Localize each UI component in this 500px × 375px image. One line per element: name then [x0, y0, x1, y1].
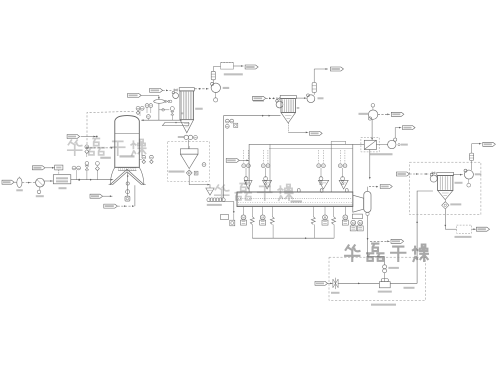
flag: air out D	[391, 112, 404, 116]
dashed box: pneumatic conveying	[329, 257, 426, 306]
air duct bar	[162, 122, 188, 126]
bed spring Z4	[332, 207, 336, 239]
wire: branch to flag (dash-dot)	[370, 240, 390, 242]
dashed box: cyclone unit	[168, 141, 210, 181]
wire: hood to HX	[331, 141, 364, 144]
bed motor M3	[322, 207, 328, 226]
wire: HX to fan E	[376, 144, 387, 146]
flag: vent 排空 B	[330, 67, 343, 71]
cyclone separator 旋风除尘器	[169, 140, 206, 173]
inline filter F1	[16, 177, 23, 192]
wire: skirt drain down	[134, 185, 136, 206]
plate heat exchanger 板式换热器	[364, 140, 392, 155]
bed inlet valve assembly 3	[317, 150, 329, 189]
wire: filter to pump (dash-dot)	[22, 182, 35, 184]
wire: pump to tank	[44, 180, 53, 182]
control valve on branch	[170, 107, 174, 121]
bed spring Z3	[311, 207, 315, 239]
flag: dust out 排粉	[310, 131, 323, 135]
flag: steam 蒸汽 C	[396, 172, 428, 176]
wire: valve C down	[444, 209, 456, 229]
wire: atomizer feed (dash-dot)	[86, 147, 113, 159]
instruments on tower dome	[136, 104, 153, 116]
wire: valve to venturi	[384, 273, 386, 282]
flag: conveying branch	[391, 239, 404, 243]
air distributor band	[118, 168, 136, 171]
dashed box: final drying unit	[410, 162, 481, 214]
bed left inlet box	[221, 214, 235, 226]
blower B-C 风机	[464, 169, 481, 187]
silencer A	[211, 67, 220, 84]
bed inlet valve assembly 2	[261, 150, 271, 189]
discharge valve C 卸料阀	[442, 200, 462, 209]
flag: vent 排空 A	[245, 65, 258, 69]
watermark 3 (华磊干燥, right-lower)	[344, 244, 429, 262]
butterfly valve	[331, 278, 340, 294]
spray dryer tower body	[115, 116, 140, 168]
bed spring Z2	[270, 207, 274, 239]
wire: valve box to tank (dashed)	[58, 170, 60, 175]
collection hopper	[206, 188, 214, 195]
wire: cyclone discharge to hopper	[189, 176, 210, 188]
bed spring Z1	[250, 207, 254, 239]
tower cone bottom (pagoda)	[109, 167, 146, 184]
watermark 2 (华磊干燥, center)	[214, 183, 294, 201]
flag: conveying air inlet	[315, 281, 333, 285]
silencer C	[470, 143, 482, 170]
blower B-A 风机	[211, 82, 230, 102]
watermark 1 (华磊干燥, left-center)	[67, 138, 147, 156]
flag: to next stage	[380, 185, 392, 189]
bag filter A 布袋除尘器	[179, 88, 203, 133]
fan F-B1	[276, 98, 283, 108]
bed right gearbox	[350, 214, 363, 231]
discharge valve under cyclone	[186, 170, 198, 176]
pump P1	[36, 178, 45, 197]
bed motor M2	[260, 207, 266, 226]
tower discharge stack	[125, 173, 130, 202]
wire: to product flag	[472, 228, 476, 230]
hot-air distributor dish	[154, 100, 172, 104]
flag: product 成品	[476, 227, 489, 231]
flag: bed air inlet	[226, 158, 249, 162]
wire: fan D to flag (dash-dot)	[378, 113, 390, 115]
wire: main feed line	[71, 179, 113, 181]
feed tank T1 山楂提取液	[53, 175, 71, 190]
bed inlet valve assembly 4	[338, 150, 348, 189]
wire: conveying line	[338, 283, 379, 285]
wire: filter B dust out	[288, 123, 308, 133]
fan F-A1	[172, 91, 178, 98]
valve at filter A inlet	[174, 89, 177, 91]
valve V2 with bubble	[95, 162, 99, 180]
wire: filter A outlet to blower A	[194, 88, 208, 90]
flag: reflux 回流	[67, 135, 97, 139]
wire: conveying line 2	[390, 283, 417, 288]
bed inlet valve assembly 1	[242, 150, 252, 189]
muffler box (dashed)	[221, 63, 243, 76]
wire: fan D down to HX	[371, 119, 373, 140]
wire: HX bottom outlet	[369, 150, 371, 180]
silencer B	[312, 68, 328, 95]
flag: vent E 排空	[403, 126, 416, 130]
flag: drain 排渣液	[104, 204, 135, 208]
bed motor M1	[241, 207, 247, 226]
flag: tap water 自来水	[32, 166, 54, 170]
dashed box: plate HX	[361, 138, 379, 152]
valve box F	[55, 165, 63, 170]
fan F-C1	[430, 172, 437, 182]
valve V1 (vertical)	[85, 162, 89, 180]
bed motor M4	[342, 207, 348, 226]
wire: conveyor to bed inlet	[223, 202, 234, 214]
wire: capsule top vent	[368, 186, 379, 192]
bag filter C	[437, 173, 463, 200]
wire: muffler to vent	[233, 65, 243, 67]
instrument bubbles PI/TI	[72, 166, 80, 180]
rotary feeder valve	[383, 265, 399, 273]
drain manifold under bed	[252, 237, 334, 239]
discharge riser capsule	[364, 191, 371, 215]
dashed box: product packing 成品包装	[455, 225, 472, 238]
flag: steam to heater 蒸汽	[128, 93, 160, 99]
blower B-B 风机	[307, 94, 324, 103]
wire: hot air duct to tower	[141, 115, 182, 121]
screw conveyor	[207, 198, 225, 206]
atomizer instruments	[85, 145, 89, 157]
flag: supply air 送风	[150, 88, 173, 92]
rotary valve under filter A	[178, 135, 198, 139]
instrument cluster at riser corner	[225, 100, 264, 128]
flag: filter B inlet	[253, 96, 276, 100]
wire: product drop line	[367, 216, 385, 265]
wire: fan E vent	[395, 127, 401, 138]
wire: conveying riser	[416, 191, 433, 283]
wire: filter B to blower B	[297, 97, 307, 99]
flag: feed liquid 料液	[2, 180, 17, 184]
dashed enclosure (tower top-left)	[87, 111, 135, 147]
bed hood enclosure	[249, 144, 353, 192]
venturi feeder (roots blower)	[378, 279, 392, 293]
wire: dish down to duct	[159, 103, 169, 120]
flag: vent 排空 C	[483, 142, 496, 146]
bed discharge transition	[353, 195, 364, 212]
flag: cold air 冷风	[90, 194, 112, 198]
fan F-E 风机	[388, 138, 408, 149]
wire: filter C to blower C	[453, 174, 463, 176]
bag filter B	[280, 95, 299, 123]
vibrating fluid bed 振动流化床	[237, 189, 353, 207]
instruments right of tower	[139, 155, 153, 163]
fan F-D 空气	[359, 104, 378, 121]
wire: fines riser to filter B	[224, 115, 281, 198]
